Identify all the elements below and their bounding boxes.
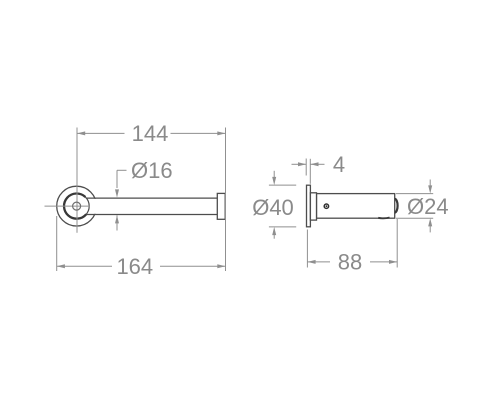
inner mount ring thick dark arc: [64, 193, 86, 218]
bar bottom edge: [86, 214, 218, 216]
bar top edge: [86, 197, 217, 199]
right extension line (cap edge, shared 144/164): [225, 128, 227, 272]
svg-text:164: 164: [116, 254, 153, 279]
left extension line: [306, 230, 308, 268]
center screw hole circle: [73, 202, 81, 210]
svg-text:144: 144: [132, 121, 169, 146]
svg-text:Ø24: Ø24: [407, 194, 449, 219]
dimension 4 (flange thickness): [292, 159, 325, 184]
svg-text:88: 88: [338, 250, 362, 275]
domed end cap arc: [395, 199, 398, 213]
flange outer circle: [57, 186, 97, 226]
left extension line: [56, 216, 58, 271]
dimension Ø40 (flange diameter): [269, 171, 296, 239]
dimension Ø24 (bar diameter): [396, 180, 433, 233]
cylinder body: [317, 194, 395, 219]
end cap rectangle: [217, 193, 225, 219]
inner mount ring thin full circle: [64, 194, 89, 219]
right extension line: [396, 219, 398, 268]
svg-text:Ø40: Ø40: [252, 195, 294, 220]
wall flange plate: [307, 185, 311, 227]
horizontal centerline of flange: [45, 205, 90, 207]
vertical centerline of flange (also 144 extension): [76, 128, 78, 233]
dark shading arc at bottom of cap: [378, 217, 389, 220]
dimension Ø16 leader: [115, 170, 127, 230]
set screw: [324, 204, 328, 208]
svg-text:4: 4: [333, 152, 345, 177]
svg-text:Ø16: Ø16: [131, 158, 173, 183]
dimension 144: [77, 131, 226, 135]
bar body (white mask over outer circle): [91, 199, 217, 214]
collar ring: [310, 193, 316, 220]
